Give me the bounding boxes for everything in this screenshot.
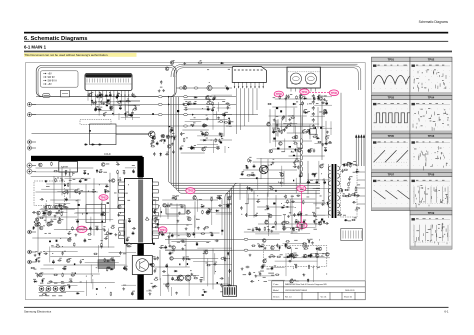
diode D110	[160, 152, 162, 156]
capacitor C115	[110, 106, 112, 110]
capacitor C258	[283, 227, 285, 231]
capacitor C203	[64, 206, 68, 208]
capacitor C125	[226, 102, 230, 104]
capacitor C104	[96, 94, 98, 98]
resistor R150	[110, 292, 112, 296]
IC IC601 reset	[166, 205, 185, 214]
resistor R199	[287, 247, 291, 249]
node junction	[312, 266, 315, 269]
capacitor C244	[325, 222, 329, 224]
diode D153	[289, 254, 291, 258]
capacitor C279	[250, 280, 254, 282]
resistor R102	[101, 94, 103, 98]
diode D104	[105, 95, 109, 97]
ground	[170, 136, 173, 139]
diode D802	[91, 144, 95, 146]
wire	[247, 198, 315, 200]
capacitor C108	[99, 94, 101, 98]
wire	[314, 143, 332, 145]
resistor R112	[151, 145, 155, 147]
resistor R161	[206, 264, 210, 266]
resistor R117	[267, 103, 271, 105]
transistor Q109	[279, 142, 283, 146]
resistor R179	[295, 160, 299, 162]
wire	[49, 247, 51, 263]
capacitor C157	[80, 260, 82, 264]
capacitor C296	[160, 80, 162, 84]
svg-text:TP09: TP09	[276, 93, 283, 96]
resistor R203	[356, 207, 360, 209]
capacitor C172	[127, 245, 131, 247]
wire	[322, 127, 332, 129]
capacitor C276	[276, 244, 278, 248]
transistor Q121	[118, 205, 122, 209]
capacitor C113	[117, 94, 119, 98]
ferrite bead L203	[179, 87, 183, 89]
ground	[321, 203, 324, 206]
ferrite bead L301	[244, 238, 248, 240]
resistor R126	[93, 253, 97, 255]
ground	[293, 161, 296, 164]
page footer	[24, 306, 449, 309]
component cluster center top	[194, 116, 196, 119]
wire	[184, 99, 226, 101]
capacitor C297	[227, 106, 229, 110]
node junction	[320, 172, 323, 175]
resistor R165	[175, 196, 177, 200]
transistor Q158	[263, 259, 267, 263]
ground	[270, 230, 273, 233]
resistor R202	[351, 194, 355, 196]
ground	[303, 273, 306, 276]
node junction	[91, 274, 94, 277]
capacitor C107	[131, 93, 133, 97]
svg-text:SW 9V: SW 9V	[48, 77, 56, 79]
wire IF signal row	[177, 87, 233, 89]
wire	[257, 177, 259, 190]
IC IC201 sound IF	[232, 66, 266, 82]
svg-text:SAMSUNG Main Sub & Discrete Di: SAMSUNG Main Sub & Discrete Diagrams B/D	[285, 283, 327, 286]
transistor Q101	[88, 93, 92, 97]
node junction	[59, 237, 62, 240]
wire	[318, 161, 320, 182]
resistor R186	[293, 227, 295, 231]
resistor R185	[312, 173, 316, 175]
node junction	[109, 94, 112, 97]
node junction	[266, 182, 269, 185]
wire	[53, 176, 55, 206]
test point TP02	[297, 185, 306, 191]
ferrite bead L201	[158, 96, 162, 98]
wire	[311, 252, 330, 254]
resistor R191	[303, 244, 305, 248]
title block table	[272, 281, 365, 300]
resistor R146	[117, 179, 121, 181]
wire	[253, 191, 255, 218]
legend box	[41, 71, 79, 87]
wire	[61, 168, 63, 196]
connector jack J82	[27, 140, 36, 144]
resistor R110	[190, 124, 194, 126]
capacitor C274	[296, 195, 300, 197]
wire	[160, 207, 162, 218]
resistor R120	[302, 101, 304, 105]
capacitor C202	[52, 260, 54, 264]
transistor Q128	[75, 189, 79, 193]
resistor R132	[104, 258, 106, 262]
capacitor C284	[310, 253, 312, 257]
regulator IC801 KA78R09	[59, 162, 78, 176]
node junction	[81, 213, 84, 216]
diode D154	[286, 256, 290, 258]
wire	[197, 247, 232, 249]
transistor Q164	[183, 86, 187, 90]
capacitor C300	[224, 113, 226, 117]
relay box RL801	[61, 90, 70, 97]
diode D147	[313, 220, 315, 224]
svg-text:Rel. 1.0: Rel. 1.0	[285, 296, 292, 298]
capacitor C187	[69, 280, 73, 282]
wire	[275, 260, 318, 262]
resistor R171	[186, 258, 190, 260]
ground	[115, 96, 118, 99]
wire	[246, 190, 248, 217]
transistor Q146	[227, 197, 231, 201]
ground	[75, 233, 78, 236]
wire	[213, 140, 215, 153]
capacitor C303	[172, 150, 174, 154]
node junction	[240, 213, 243, 216]
capacitor C222	[154, 210, 156, 214]
capacitor C186	[66, 190, 68, 194]
diode D128	[33, 226, 35, 230]
wire	[159, 250, 161, 280]
node junction	[95, 293, 98, 296]
transistor Q132	[37, 223, 41, 227]
resistor R172	[202, 210, 204, 214]
wire	[74, 212, 105, 214]
transistor Q147	[172, 246, 176, 250]
transistor Q148	[163, 204, 167, 208]
wire	[132, 110, 134, 121]
diode D124	[76, 292, 80, 294]
capacitor C171	[126, 238, 128, 242]
resistor R207	[345, 195, 349, 197]
wire	[214, 253, 216, 274]
node junction	[308, 130, 311, 133]
wire	[36, 167, 94, 169]
component cluster above bar right	[173, 135, 177, 138]
node junction	[37, 163, 40, 166]
wire	[307, 179, 330, 181]
wire	[286, 122, 297, 124]
resistor R168	[211, 197, 213, 201]
capacitor C128	[218, 139, 220, 143]
ground	[311, 241, 314, 244]
resistor R195	[305, 243, 307, 247]
node junction	[45, 200, 48, 203]
wire	[271, 267, 285, 269]
wire	[181, 152, 205, 154]
capacitor C183	[123, 171, 125, 175]
node junction	[194, 95, 197, 98]
ground	[208, 98, 211, 101]
chassis bus COLD horizontal	[31, 156, 143, 161]
capacitor C245	[293, 166, 297, 168]
wire	[193, 260, 214, 262]
capacitor C294	[356, 194, 360, 196]
wire	[155, 224, 192, 226]
svg-text:TP03: TP03	[388, 96, 395, 100]
wire	[295, 125, 297, 139]
wire	[301, 117, 303, 148]
ground	[114, 233, 117, 236]
transistor Q115	[269, 149, 273, 153]
wire jack ground bar	[39, 292, 67, 294]
resistor R108	[215, 138, 217, 142]
wire	[66, 207, 68, 231]
diode D107	[193, 103, 197, 105]
capacitor C156	[328, 141, 332, 143]
capacitor C141	[326, 101, 328, 105]
wire	[102, 101, 131, 103]
ferrite bead L202	[184, 96, 188, 98]
wire	[57, 191, 92, 193]
ground	[321, 143, 324, 146]
wire	[290, 214, 325, 216]
wire	[187, 108, 211, 110]
wire	[86, 280, 88, 296]
wire	[284, 215, 286, 231]
transistor Q113	[308, 149, 312, 153]
wire	[325, 121, 327, 140]
resistor R192	[295, 264, 297, 268]
svg-text:+9V: +9V	[48, 73, 53, 75]
wire	[291, 233, 311, 235]
wire	[46, 250, 77, 252]
wire	[51, 282, 115, 284]
diode D122	[35, 258, 37, 262]
wire	[307, 161, 309, 194]
wire	[269, 115, 307, 117]
capacitor C225	[172, 277, 174, 281]
resistor R220	[160, 135, 164, 137]
capacitor C269	[245, 213, 247, 217]
capacitor C292	[346, 163, 348, 167]
capacitor C301	[171, 128, 173, 132]
signal arrows	[168, 96, 170, 98]
node junction	[290, 150, 293, 153]
capacitor C154	[303, 110, 305, 114]
dark accent blobs	[34, 96, 323, 296]
diode D105	[191, 147, 195, 149]
capacitor C168	[62, 206, 66, 208]
ground	[241, 267, 244, 270]
capacitor C151	[286, 95, 288, 99]
capacitor C221	[162, 270, 166, 272]
waveform cell TP01	[372, 57, 417, 95]
line filter dashed box	[80, 120, 111, 125]
wire TP11 to TP06	[309, 91, 329, 93]
diode D131	[33, 281, 37, 283]
diode D112	[294, 148, 296, 152]
wire	[206, 212, 233, 214]
wire	[248, 194, 250, 204]
wire	[267, 159, 269, 197]
wire	[285, 253, 287, 276]
diode D102	[91, 99, 93, 103]
capacitor C241	[171, 233, 173, 237]
wire	[197, 135, 224, 137]
capacitor C285	[258, 244, 260, 248]
svg-text:TP05: TP05	[388, 134, 395, 138]
wire	[212, 103, 214, 130]
svg-text:TP01: TP01	[388, 57, 395, 61]
resistor R129	[111, 227, 115, 229]
ground	[249, 254, 252, 257]
capacitor C288	[293, 255, 295, 259]
resistor R181	[287, 200, 289, 204]
resistor R147	[119, 232, 121, 236]
diode D150	[308, 240, 310, 244]
capacitor C264	[308, 180, 310, 184]
transistor Q129	[111, 179, 115, 183]
wire	[39, 216, 78, 218]
resistor R155	[39, 217, 43, 219]
wire	[162, 199, 218, 201]
resistor R143	[62, 273, 64, 277]
test point TP11	[300, 89, 309, 95]
wire	[90, 265, 92, 284]
capacitor C267	[254, 214, 258, 216]
node junction	[175, 197, 178, 200]
capacitor C272	[311, 173, 315, 175]
node junction	[61, 245, 64, 248]
ground	[117, 214, 120, 217]
capacitor C208	[59, 205, 63, 207]
capacitor C184	[37, 273, 39, 277]
wire	[275, 120, 277, 147]
diode D123	[96, 169, 98, 173]
wire	[296, 143, 298, 158]
capacitor C273	[297, 212, 299, 216]
diode D148	[307, 279, 309, 283]
transistor Q133	[37, 211, 41, 215]
wire	[169, 234, 171, 245]
capacitor C263	[301, 226, 303, 230]
connector jack J81	[27, 113, 36, 117]
ground	[284, 97, 287, 100]
wire screen line	[340, 93, 342, 164]
wire	[41, 208, 79, 210]
wire	[272, 106, 297, 108]
wire yoke bundle	[169, 97, 321, 193]
resistor R121	[302, 129, 304, 133]
node junction	[158, 204, 161, 207]
wire IC201 pin drops	[237, 88, 258, 134]
capacitor C118	[219, 132, 221, 136]
wire	[196, 199, 198, 212]
wire	[268, 279, 285, 281]
diode D127	[104, 190, 106, 194]
wire	[287, 257, 330, 259]
wire	[176, 238, 187, 240]
capacitor C162	[84, 238, 86, 242]
resistor R188	[282, 228, 286, 230]
resistor R216	[219, 121, 223, 123]
node junction	[327, 137, 330, 140]
transistor Q114	[299, 95, 303, 99]
diode D134	[203, 291, 207, 293]
capacitor C287	[272, 255, 276, 257]
node junction	[202, 204, 205, 207]
capacitor C223	[154, 269, 156, 273]
capacitor C282	[249, 272, 251, 276]
node junction	[325, 273, 328, 276]
capacitor C155	[325, 110, 327, 114]
ground	[183, 62, 186, 65]
wire video lines	[32, 97, 311, 134]
wire	[117, 172, 119, 206]
capacitor C121	[219, 133, 223, 135]
connector jack AV2	[46, 286, 51, 291]
wire	[207, 258, 209, 286]
resistor R183	[314, 212, 316, 216]
capacitor C143	[313, 149, 315, 153]
test point TP06	[329, 90, 338, 96]
capacitor C278	[288, 260, 292, 262]
capacitor C131	[191, 146, 193, 150]
transistor Q143	[206, 211, 210, 215]
resistor R170	[171, 197, 175, 199]
node junction	[295, 228, 298, 231]
capacitor C123	[180, 146, 182, 150]
resistor R148	[107, 231, 109, 235]
transistor Q134	[35, 223, 39, 227]
wire	[221, 199, 223, 236]
ground	[288, 118, 291, 121]
capacitor C230	[168, 245, 172, 247]
ground	[38, 260, 41, 263]
capacitor C261	[324, 180, 326, 184]
capacitor C130	[191, 146, 193, 150]
capacitor C252	[297, 165, 299, 169]
svg-text:TP11: TP11	[301, 91, 307, 94]
transistor Q162	[315, 254, 319, 258]
capacitor C207	[55, 212, 59, 214]
resistor R163	[145, 219, 149, 221]
transistor Q165	[170, 61, 174, 65]
diode D142	[292, 227, 294, 231]
wire	[182, 129, 208, 131]
transistor Q110	[319, 97, 323, 101]
resistor R160	[194, 277, 198, 279]
resistor R180	[275, 221, 277, 225]
ground	[175, 292, 178, 295]
ground	[273, 119, 276, 122]
wire	[55, 202, 70, 204]
node junction	[202, 252, 205, 255]
node junction	[294, 206, 297, 209]
wire	[293, 108, 295, 133]
transistor Q111	[298, 149, 302, 153]
capacitor C139	[313, 97, 315, 101]
wire	[85, 261, 119, 263]
wire	[125, 219, 127, 264]
transistor Q152	[318, 222, 322, 226]
vertical output dashed box IC301	[263, 246, 327, 267]
capacitor C235	[158, 232, 160, 236]
